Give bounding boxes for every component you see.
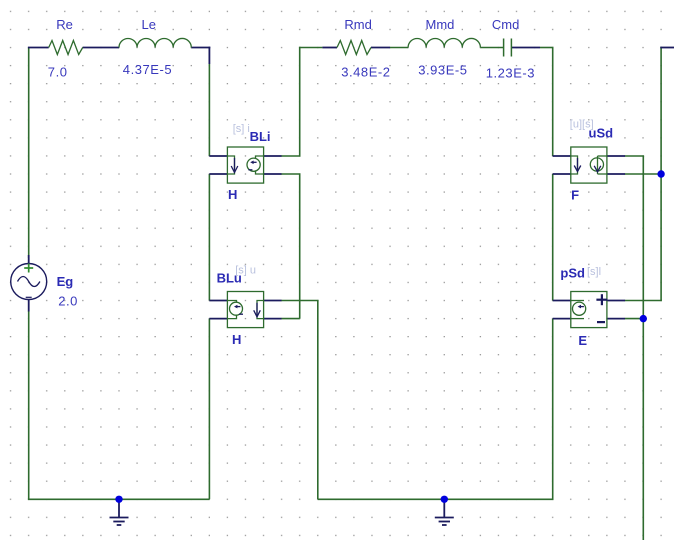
svg-text:Cmd: Cmd bbox=[492, 17, 519, 32]
svg-text:Le: Le bbox=[142, 17, 156, 32]
svg-text:3.93E-5: 3.93E-5 bbox=[418, 63, 467, 78]
svg-text:Mmd: Mmd bbox=[426, 17, 455, 32]
svg-text:3.48E-2: 3.48E-2 bbox=[341, 64, 390, 79]
svg-text:[s] u: [s] u bbox=[235, 265, 256, 277]
svg-text:[s]l: [s]l bbox=[587, 266, 601, 278]
svg-text:F: F bbox=[571, 188, 579, 203]
svg-text:2.0: 2.0 bbox=[58, 294, 78, 309]
svg-text:1.23E-3: 1.23E-3 bbox=[486, 65, 535, 80]
svg-text:[u][s]: [u][s] bbox=[570, 118, 594, 130]
svg-text:[s] i: [s] i bbox=[233, 123, 250, 135]
svg-text:H: H bbox=[228, 187, 237, 202]
svg-text:Rmd: Rmd bbox=[344, 17, 371, 32]
svg-text:4.37E-5: 4.37E-5 bbox=[123, 62, 172, 77]
svg-text:Eg: Eg bbox=[57, 274, 74, 289]
svg-text:H: H bbox=[232, 332, 241, 347]
svg-text:pSd: pSd bbox=[560, 265, 585, 280]
svg-text:7.0: 7.0 bbox=[48, 65, 68, 80]
svg-text:E: E bbox=[578, 333, 587, 348]
svg-text:BLi: BLi bbox=[250, 129, 271, 144]
svg-text:Re: Re bbox=[56, 17, 73, 32]
